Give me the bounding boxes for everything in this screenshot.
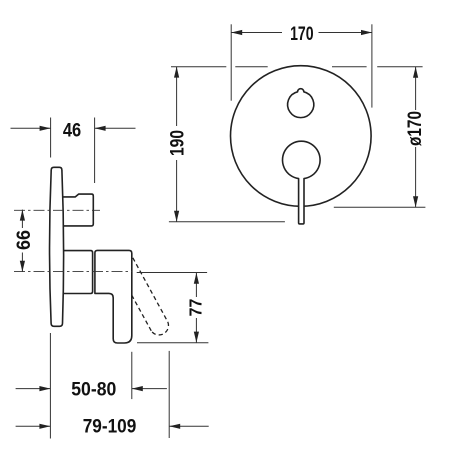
- valve body (side view): [63, 251, 92, 294]
- arrow 170 left: [231, 30, 242, 35]
- label 77: [186, 299, 206, 317]
- extension line wall face: [49, 333, 51, 439]
- diverter knob with top notch (front view): [288, 89, 314, 118]
- label 190: [166, 130, 188, 156]
- 66 dimension line (two segments around text): [21, 210, 23, 228]
- extension line swung handle tip: [168, 351, 170, 438]
- 77 bottom extension: [137, 342, 208, 344]
- handle (side view, solid position): [95, 250, 132, 343]
- svg-text:50-80: 50-80: [71, 378, 116, 400]
- arrow 77 bottom: [194, 332, 199, 343]
- svg-text:46: 46: [63, 119, 81, 140]
- extension line handle front: [131, 352, 133, 399]
- center line through valve body (side view): [14, 271, 132, 273]
- svg-text:66: 66: [13, 230, 35, 250]
- label 50-80: [71, 378, 116, 400]
- 50-80 leader tails: [16, 388, 51, 390]
- arrow 46 left: [40, 126, 51, 131]
- label 170: [290, 23, 313, 45]
- trim plate circle: [230, 66, 371, 207]
- arrow dia170 bottom: [413, 196, 418, 207]
- dimension line dia170 (two segments around text): [415, 67, 417, 110]
- arrow 50-80 right: [132, 386, 143, 391]
- 77 top extension: [137, 272, 207, 274]
- mixer handle: disc + lever (front view): [283, 141, 321, 224]
- handle swung position (dashed): [132, 258, 169, 335]
- dimension line 190 (two segments around text): [176, 67, 178, 126]
- arrow 46 right: [95, 126, 106, 131]
- extension line left of 170: [230, 24, 232, 100]
- wall plate (side view): [50, 167, 64, 326]
- top tangent extension line y=66.8: [171, 66, 226, 68]
- arrow 190 bottom: [174, 211, 179, 222]
- arrow 77 top: [194, 273, 199, 284]
- svg-text:190: 190: [166, 130, 188, 156]
- arrow 190 top: [174, 67, 179, 78]
- dimension line 170 (two segments around text): [231, 32, 282, 34]
- arrow 66 top: [20, 210, 25, 221]
- label 46: [63, 119, 81, 140]
- svg-text:79-109: 79-109: [83, 414, 137, 436]
- svg-text:170: 170: [290, 23, 313, 45]
- bottom tangent extension (right, for dia 170): [334, 206, 426, 208]
- diverter knob (side view): [63, 194, 93, 226]
- 46 extension lines: [50, 118, 52, 158]
- 46 leader tails: [11, 127, 51, 129]
- label dia 170: [403, 111, 425, 146]
- svg-text:ø170: ø170: [403, 111, 425, 146]
- arrow 50-80 left: [39, 386, 50, 391]
- arrow 170 right: [361, 30, 372, 35]
- label 79-109: [83, 414, 137, 436]
- arrow 66 bottom: [20, 261, 25, 272]
- arrow dia170 top: [413, 67, 418, 78]
- bottom extension at lever tip (left, for 190): [169, 221, 285, 223]
- extension line right of 170: [371, 24, 373, 107]
- label 66: [13, 230, 35, 250]
- 77 dimension line (two segments around text): [195, 273, 197, 297]
- arrow 79-109 right: [169, 424, 180, 429]
- 79-109 leader tails: [16, 425, 51, 427]
- center line through diverter knob (side view): [14, 210, 132, 271]
- svg-text:77: 77: [186, 299, 206, 317]
- arrow 79-109 left: [39, 424, 50, 429]
